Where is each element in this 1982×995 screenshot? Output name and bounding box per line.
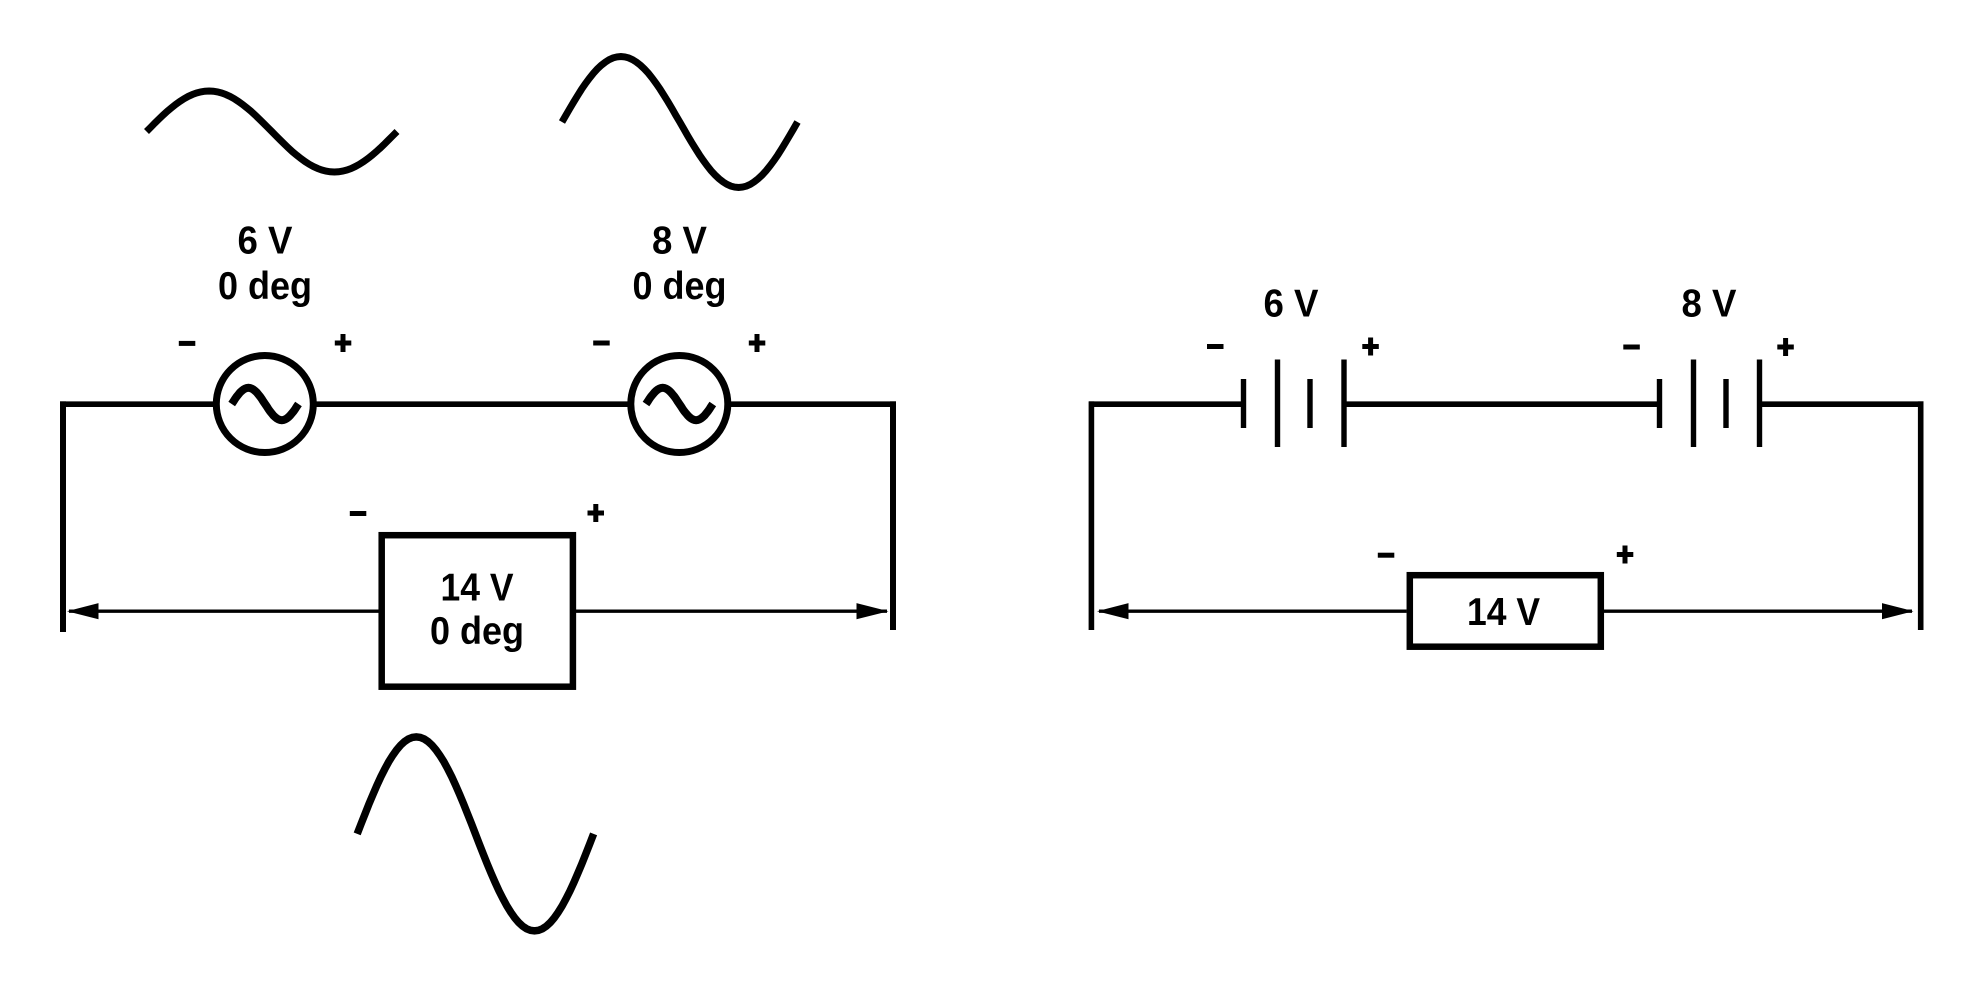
- resultant source box 14 V 0 deg (left circuit): [382, 535, 573, 687]
- arrowhead right (left circuit): [857, 603, 889, 619]
- B2 plate 1 short (negative): [1657, 379, 1662, 428]
- svg-text:0 deg: 0 deg: [218, 265, 312, 308]
- polarity minus (right box): [1378, 553, 1395, 558]
- wire top-right horizontal (right circuit): [1761, 401, 1924, 407]
- arrowhead left (right circuit): [1097, 603, 1129, 619]
- wire left vertical (right circuit): [1089, 401, 1095, 630]
- polarity minus (source V2): [593, 341, 610, 346]
- wire left vertical (left circuit): [60, 401, 66, 632]
- AC source V2 (8 V 0 deg): [631, 356, 728, 453]
- waveform sine resultant 14 V (left circuit): [357, 737, 593, 931]
- polarity minus (battery B2): [1623, 345, 1640, 350]
- svg-text:14 V: 14 V: [1467, 591, 1540, 634]
- polarity plus (right box): [1617, 546, 1634, 564]
- svg-text:6 V: 6 V: [1264, 283, 1319, 326]
- wire top-left horizontal (right circuit): [1089, 401, 1242, 407]
- B2 plate 2 long: [1691, 360, 1696, 448]
- B1 plate 2 long: [1275, 360, 1280, 448]
- polarity minus (left box): [350, 511, 367, 516]
- B2 plate 3 short: [1723, 379, 1728, 428]
- voltage arrow right segment (left circuit): [576, 610, 887, 613]
- svg-text:8 V: 8 V: [1682, 283, 1737, 326]
- polarity plus (battery B2): [1777, 338, 1794, 356]
- AC source V1 (6 V 0 deg): [216, 356, 313, 453]
- polarity plus (left box): [588, 504, 605, 522]
- B2 plate 4 long (positive): [1757, 360, 1762, 448]
- voltage arrow left segment (right circuit): [1099, 610, 1407, 613]
- svg-text:8 V: 8 V: [652, 220, 707, 263]
- wire right vertical (right circuit): [1918, 401, 1924, 630]
- polarity plus (battery B1): [1362, 338, 1379, 356]
- arrowhead right (right circuit): [1882, 603, 1914, 619]
- wire top horizontal (left circuit): [60, 401, 896, 407]
- B1 plate 3 short: [1307, 379, 1312, 428]
- battery B1 (6 V): [1241, 360, 1347, 448]
- B1 plate 4 long (positive): [1341, 360, 1346, 448]
- voltage arrow left segment (left circuit): [69, 610, 379, 613]
- wire top-middle horizontal (right circuit): [1345, 401, 1658, 407]
- voltage arrow right segment (right circuit): [1604, 610, 1912, 613]
- svg-text:14 V: 14 V: [441, 567, 514, 610]
- arrowhead left (left circuit): [67, 603, 99, 619]
- waveform sine for source V1 (6 V): [147, 91, 398, 172]
- svg-text:6 V: 6 V: [238, 220, 293, 263]
- battery B2 (8 V): [1657, 360, 1762, 448]
- wire right vertical (left circuit): [890, 401, 896, 630]
- polarity plus (source V1): [335, 334, 352, 352]
- polarity plus (source V2): [749, 334, 766, 352]
- B1 plate 1 short (negative): [1241, 379, 1246, 428]
- polarity minus (source V1): [179, 341, 196, 346]
- resultant box 14 V (right circuit): [1410, 575, 1601, 647]
- waveform sine for source V2 (8 V): [562, 57, 798, 188]
- svg-text:0 deg: 0 deg: [430, 610, 524, 653]
- polarity minus (battery B1): [1207, 344, 1224, 349]
- svg-text:0 deg: 0 deg: [633, 265, 727, 308]
